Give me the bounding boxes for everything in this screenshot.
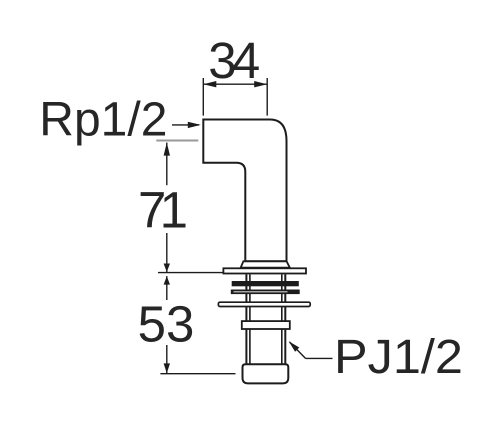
svg-text:34: 34 [208,32,260,89]
svg-text:PJ1/2: PJ1/2 [334,331,463,384]
svg-text:53: 53 [138,295,195,352]
svg-text:Rp1/2: Rp1/2 [39,94,167,147]
svg-text:71: 71 [138,182,188,239]
